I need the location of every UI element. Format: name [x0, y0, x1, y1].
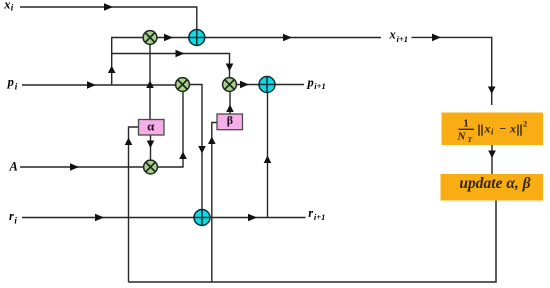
svg-text:A: A	[9, 160, 18, 174]
svg-text:r: r	[9, 209, 14, 223]
svg-text:1: 1	[463, 117, 469, 129]
svg-text:T: T	[468, 135, 473, 144]
wire m4 output up to m2	[158, 92, 184, 168]
svg-text:−: −	[500, 121, 507, 135]
svg-text:2: 2	[523, 118, 527, 128]
wire alpha box down to m4	[150, 135, 152, 160]
beta gain box	[217, 113, 243, 130]
wire m2 output down to adder3	[190, 85, 203, 210]
arrow up on alpha feedback	[125, 138, 133, 146]
svg-text:r: r	[308, 206, 313, 220]
svg-text:i+1: i+1	[314, 81, 325, 91]
svg-text:i+1: i+1	[314, 212, 325, 222]
wire adder2 output to p_i+1	[275, 84, 304, 86]
wire feedback up into alpha box	[129, 127, 139, 282]
arrow on r_i wire	[95, 214, 104, 222]
wire x_i input to corner	[20, 7, 197, 30]
arrow right after x_i+1 label	[432, 34, 441, 42]
wire m1 to adder1	[157, 37, 189, 39]
wire p branch to m3 (y=53)	[112, 54, 230, 78]
node r_i+1 label	[308, 206, 325, 222]
error metric box	[442, 113, 544, 146]
wire x_i+1 to error box	[412, 37, 492, 105]
wire feedback up into beta box	[212, 123, 217, 283]
adder ADD2 (r + beta p)	[259, 77, 275, 93]
node r_i label	[9, 209, 17, 226]
wire error box to update box	[491, 145, 493, 174]
wire adder3 output to r_i+1	[210, 217, 306, 219]
multiplier M4 (A * alpha)	[144, 160, 158, 174]
svg-text:α: α	[147, 119, 155, 134]
arrow on A wire	[70, 163, 79, 171]
adder ADD1 (x_i + alpha p)	[189, 30, 205, 46]
wire alpha box up to m1	[149, 45, 151, 120]
alpha gain box	[139, 119, 165, 136]
svg-text:update α, β: update α, β	[459, 175, 530, 192]
svg-text:β: β	[227, 113, 233, 127]
node p_i label	[7, 75, 18, 92]
arrow up on m4-m2 wire	[179, 152, 187, 160]
multiplier M3 (beta * p)	[223, 78, 237, 92]
arrow down into m3	[226, 64, 234, 72]
svg-text:x: x	[509, 121, 516, 135]
arrow up on beta-m3 wire	[226, 105, 234, 113]
multiplier M2 (p * Aalpha p)	[176, 78, 190, 92]
wire r_i+1 branch up to adder2	[267, 93, 269, 218]
arrow down into error box	[488, 87, 496, 95]
arrow up on p branch	[108, 66, 116, 74]
node x_i+1 label	[389, 28, 408, 44]
arrow down on alpha-m4 wire	[147, 141, 155, 149]
adder ADD3 (r update)	[194, 210, 210, 226]
svg-text:x: x	[484, 121, 491, 135]
arrow down on m2-adder3 wire	[198, 146, 206, 154]
arrow on p_i wire	[87, 81, 96, 89]
node p_i+1 label	[307, 75, 326, 91]
svg-text:p: p	[307, 75, 314, 89]
svg-text:x: x	[389, 28, 396, 42]
wire update box feedback bottom	[129, 201, 497, 283]
svg-text:x: x	[3, 0, 10, 12]
arrow up on beta feedback	[208, 137, 216, 145]
wire r_i input	[22, 217, 194, 219]
arrow m3 to adder2	[240, 81, 249, 89]
wire m3 to adder2	[237, 84, 260, 86]
svg-text:N: N	[457, 131, 467, 143]
svg-text:p: p	[7, 75, 14, 89]
arrow on x_i wire	[104, 3, 113, 11]
wire p branch up to multiplier row	[112, 38, 143, 86]
arrow down between boxes	[488, 151, 496, 159]
wire adder1 output to x_i+1	[205, 37, 381, 39]
arrow up on alpha-m1 wire	[146, 81, 154, 89]
arrow on r_i+1 wire	[248, 214, 257, 222]
svg-text:i+1: i+1	[397, 34, 408, 44]
multiplier M1 (alpha * p)	[143, 31, 157, 45]
update alpha beta box	[441, 174, 544, 201]
node x_i label	[3, 0, 14, 13]
wire A input	[20, 166, 144, 168]
arrow up on r-adder2 wire	[264, 156, 272, 164]
arrow right on y53 wire	[176, 50, 185, 58]
arrow m1 to adder1	[164, 34, 173, 42]
arrow on x_i+1 wire	[283, 34, 292, 42]
wire beta box up to m3	[229, 92, 231, 114]
wire p_i input	[22, 84, 176, 86]
